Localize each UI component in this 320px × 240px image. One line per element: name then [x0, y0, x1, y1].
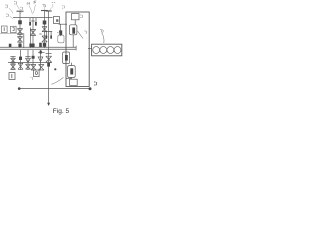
synchronizer X1 on V1 — [17, 29, 22, 35]
synchronizer X5 on V3 — [42, 36, 47, 42]
R4 link line — [66, 77, 71, 79]
label 56 — [80, 15, 82, 18]
gear dash on S2 at x43 — [38, 51, 45, 53]
gear G3 wide foot — [29, 44, 34, 48]
lower cluster shaft at x33 — [32, 50, 34, 70]
lower cluster shaft at x40.5 — [40, 50, 42, 70]
label lead 30 — [43, 8, 46, 10]
label 57 — [84, 31, 86, 34]
gear blob on V4 lower — [47, 63, 50, 67]
synchronizer X6b at x13 — [11, 64, 16, 69]
transmission housing box — [66, 12, 89, 87]
vertical shaft V3 — [44, 11, 46, 49]
gear G4 on V3 — [43, 21, 47, 25]
motor rect R4 — [68, 66, 76, 78]
synchronizer X10 on V4 — [46, 56, 52, 62]
junction dot right of S4 — [89, 87, 92, 90]
boxed label 2 — [11, 26, 17, 32]
lead line from R2 — [78, 31, 84, 39]
label 15 — [34, 1, 36, 4]
label 33 — [52, 3, 55, 5]
vertical shaft V2 — [32, 18, 34, 49]
synchronizer X2 on V1 — [17, 37, 22, 43]
gear blob on S2 — [40, 51, 42, 54]
V4 top tick — [46, 10, 52, 12]
gear G6 on stub — [59, 30, 62, 35]
label 30 — [42, 5, 45, 8]
motor rect R2 — [70, 25, 77, 35]
synchronizer X9 at x40.5 — [38, 57, 43, 62]
boxed label 1 — [2, 26, 8, 33]
label 24 lead — [10, 16, 13, 19]
cylinder 2 — [100, 47, 107, 54]
label 26 — [20, 7, 23, 10]
vertical link at x30.4 — [29, 28, 31, 49]
R2 inner bar — [72, 28, 75, 34]
output line S4 — [19, 88, 91, 90]
synchronizer X8b at x28 — [26, 64, 31, 69]
shaft S2 (main heavy shaft) — [0, 46, 76, 48]
label 25 — [5, 5, 7, 8]
vertical link at x23.8 — [23, 34, 25, 49]
clutch T on V4 lower — [46, 53, 52, 55]
digit in box 4 — [11, 74, 13, 78]
node dot — [54, 68, 56, 70]
lower cluster shaft at x28 — [27, 50, 29, 70]
cylinder 3 — [107, 47, 114, 54]
shaft S3 (lower lay shaft) — [8, 62, 52, 64]
engine label lead — [102, 33, 104, 43]
label lead 29 — [17, 5, 20, 10]
synchronizer X9b at x33 — [31, 65, 36, 71]
countershaft stub — [0, 33, 24, 35]
vertical shaft V1 — [19, 11, 21, 48]
boxed label 3 — [54, 17, 60, 24]
boxed label 5 — [34, 70, 40, 77]
synchronizer X6a at x13 — [11, 58, 16, 63]
digit in box 2 — [13, 28, 15, 31]
clutch cup on V4 — [45, 31, 52, 38]
label lead 33 — [50, 6, 54, 11]
coupling housing at x60 — [58, 35, 64, 43]
V3 top tick — [41, 10, 48, 12]
tick at x40.5 — [39, 33, 41, 35]
shaft S2 end tick — [75, 46, 77, 51]
synchronizer X8a at x28 — [26, 58, 31, 62]
gear blob at x40.5 — [39, 43, 42, 47]
label lead 14 — [29, 6, 33, 15]
gear stub shaft near box — [59, 24, 61, 36]
label 35 — [62, 6, 64, 9]
x13 top dash — [10, 56, 15, 58]
R4 inner bar — [70, 68, 73, 74]
synchronizer X3 on V2 — [30, 30, 36, 36]
pointer lead to box — [52, 77, 64, 84]
label 58 — [94, 82, 97, 85]
gear G1 on V1 — [18, 20, 22, 24]
synchronizer X10b at x41 — [39, 65, 45, 71]
boxed label 4 — [9, 73, 15, 80]
gear G7 at x20.5 — [19, 57, 22, 60]
label lead 25 — [9, 8, 13, 14]
x28 top dash — [25, 56, 30, 58]
lower cluster shaft at x20.5 — [20, 50, 22, 70]
actuator rect R3 — [63, 52, 70, 64]
shaft S1 (top input shaft) — [13, 17, 53, 19]
R2 output line — [72, 35, 74, 48]
R1 tick — [74, 20, 76, 25]
V1 top tick — [17, 10, 24, 12]
label 24 — [6, 14, 8, 17]
gear G5 on V3 — [43, 43, 46, 47]
output rect R5 — [70, 63, 72, 66]
lower cluster shaft at x13 — [12, 57, 14, 71]
gear G2 on V1 — [18, 44, 21, 48]
digit in box 1 — [3, 27, 5, 31]
bearing dot left of S4 — [18, 87, 21, 90]
module rect R1 — [72, 14, 80, 20]
vertical shaft V4 (long, ends in arrow) — [48, 11, 50, 103]
arrowhead of V4 — [47, 103, 50, 106]
label 29 — [14, 1, 17, 4]
digit in box 5 — [35, 71, 37, 74]
label 50 — [100, 30, 103, 33]
engine block — [92, 44, 122, 56]
synchronizer X4 on V3 — [42, 27, 47, 32]
R3 inner bar — [65, 55, 68, 61]
label lead 15 — [34, 5, 36, 14]
cylinder 1 — [93, 47, 100, 54]
clutch cup on V2 — [30, 18, 36, 25]
gear blob on S2 at x10 — [9, 44, 12, 47]
engine connection cross — [88, 48, 92, 50]
synchronizer X7 at x20.5 — [18, 63, 23, 69]
digit in box 3 — [56, 19, 58, 22]
link line into box — [59, 23, 68, 25]
label lead 26 — [21, 11, 23, 14]
cylinder 4 — [114, 47, 121, 54]
gear G8 at x33 — [32, 56, 35, 59]
label 31 — [30, 77, 32, 80]
svg-text:Fig. 5: Fig. 5 — [53, 108, 70, 115]
label 32 — [57, 32, 59, 35]
label 14 — [27, 2, 30, 5]
